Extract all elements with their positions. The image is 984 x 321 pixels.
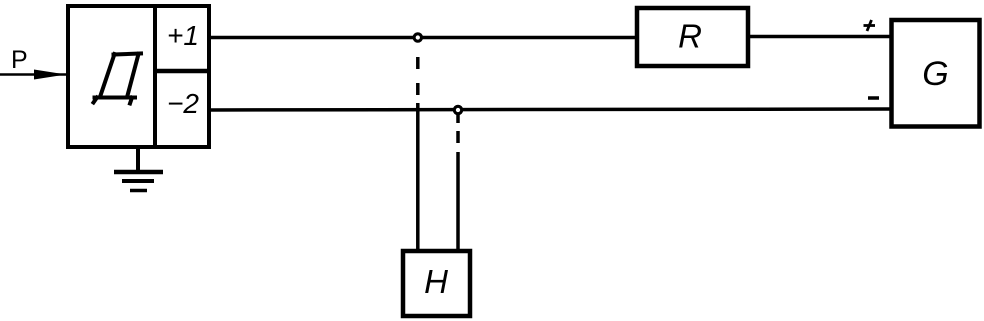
svg-text:G: G xyxy=(922,55,948,93)
svg-text:−2: −2 xyxy=(167,88,199,119)
svg-text:H: H xyxy=(424,263,448,300)
svg-text:R: R xyxy=(678,18,702,55)
svg-text:+1: +1 xyxy=(167,20,199,51)
svg-text:P: P xyxy=(11,46,28,74)
